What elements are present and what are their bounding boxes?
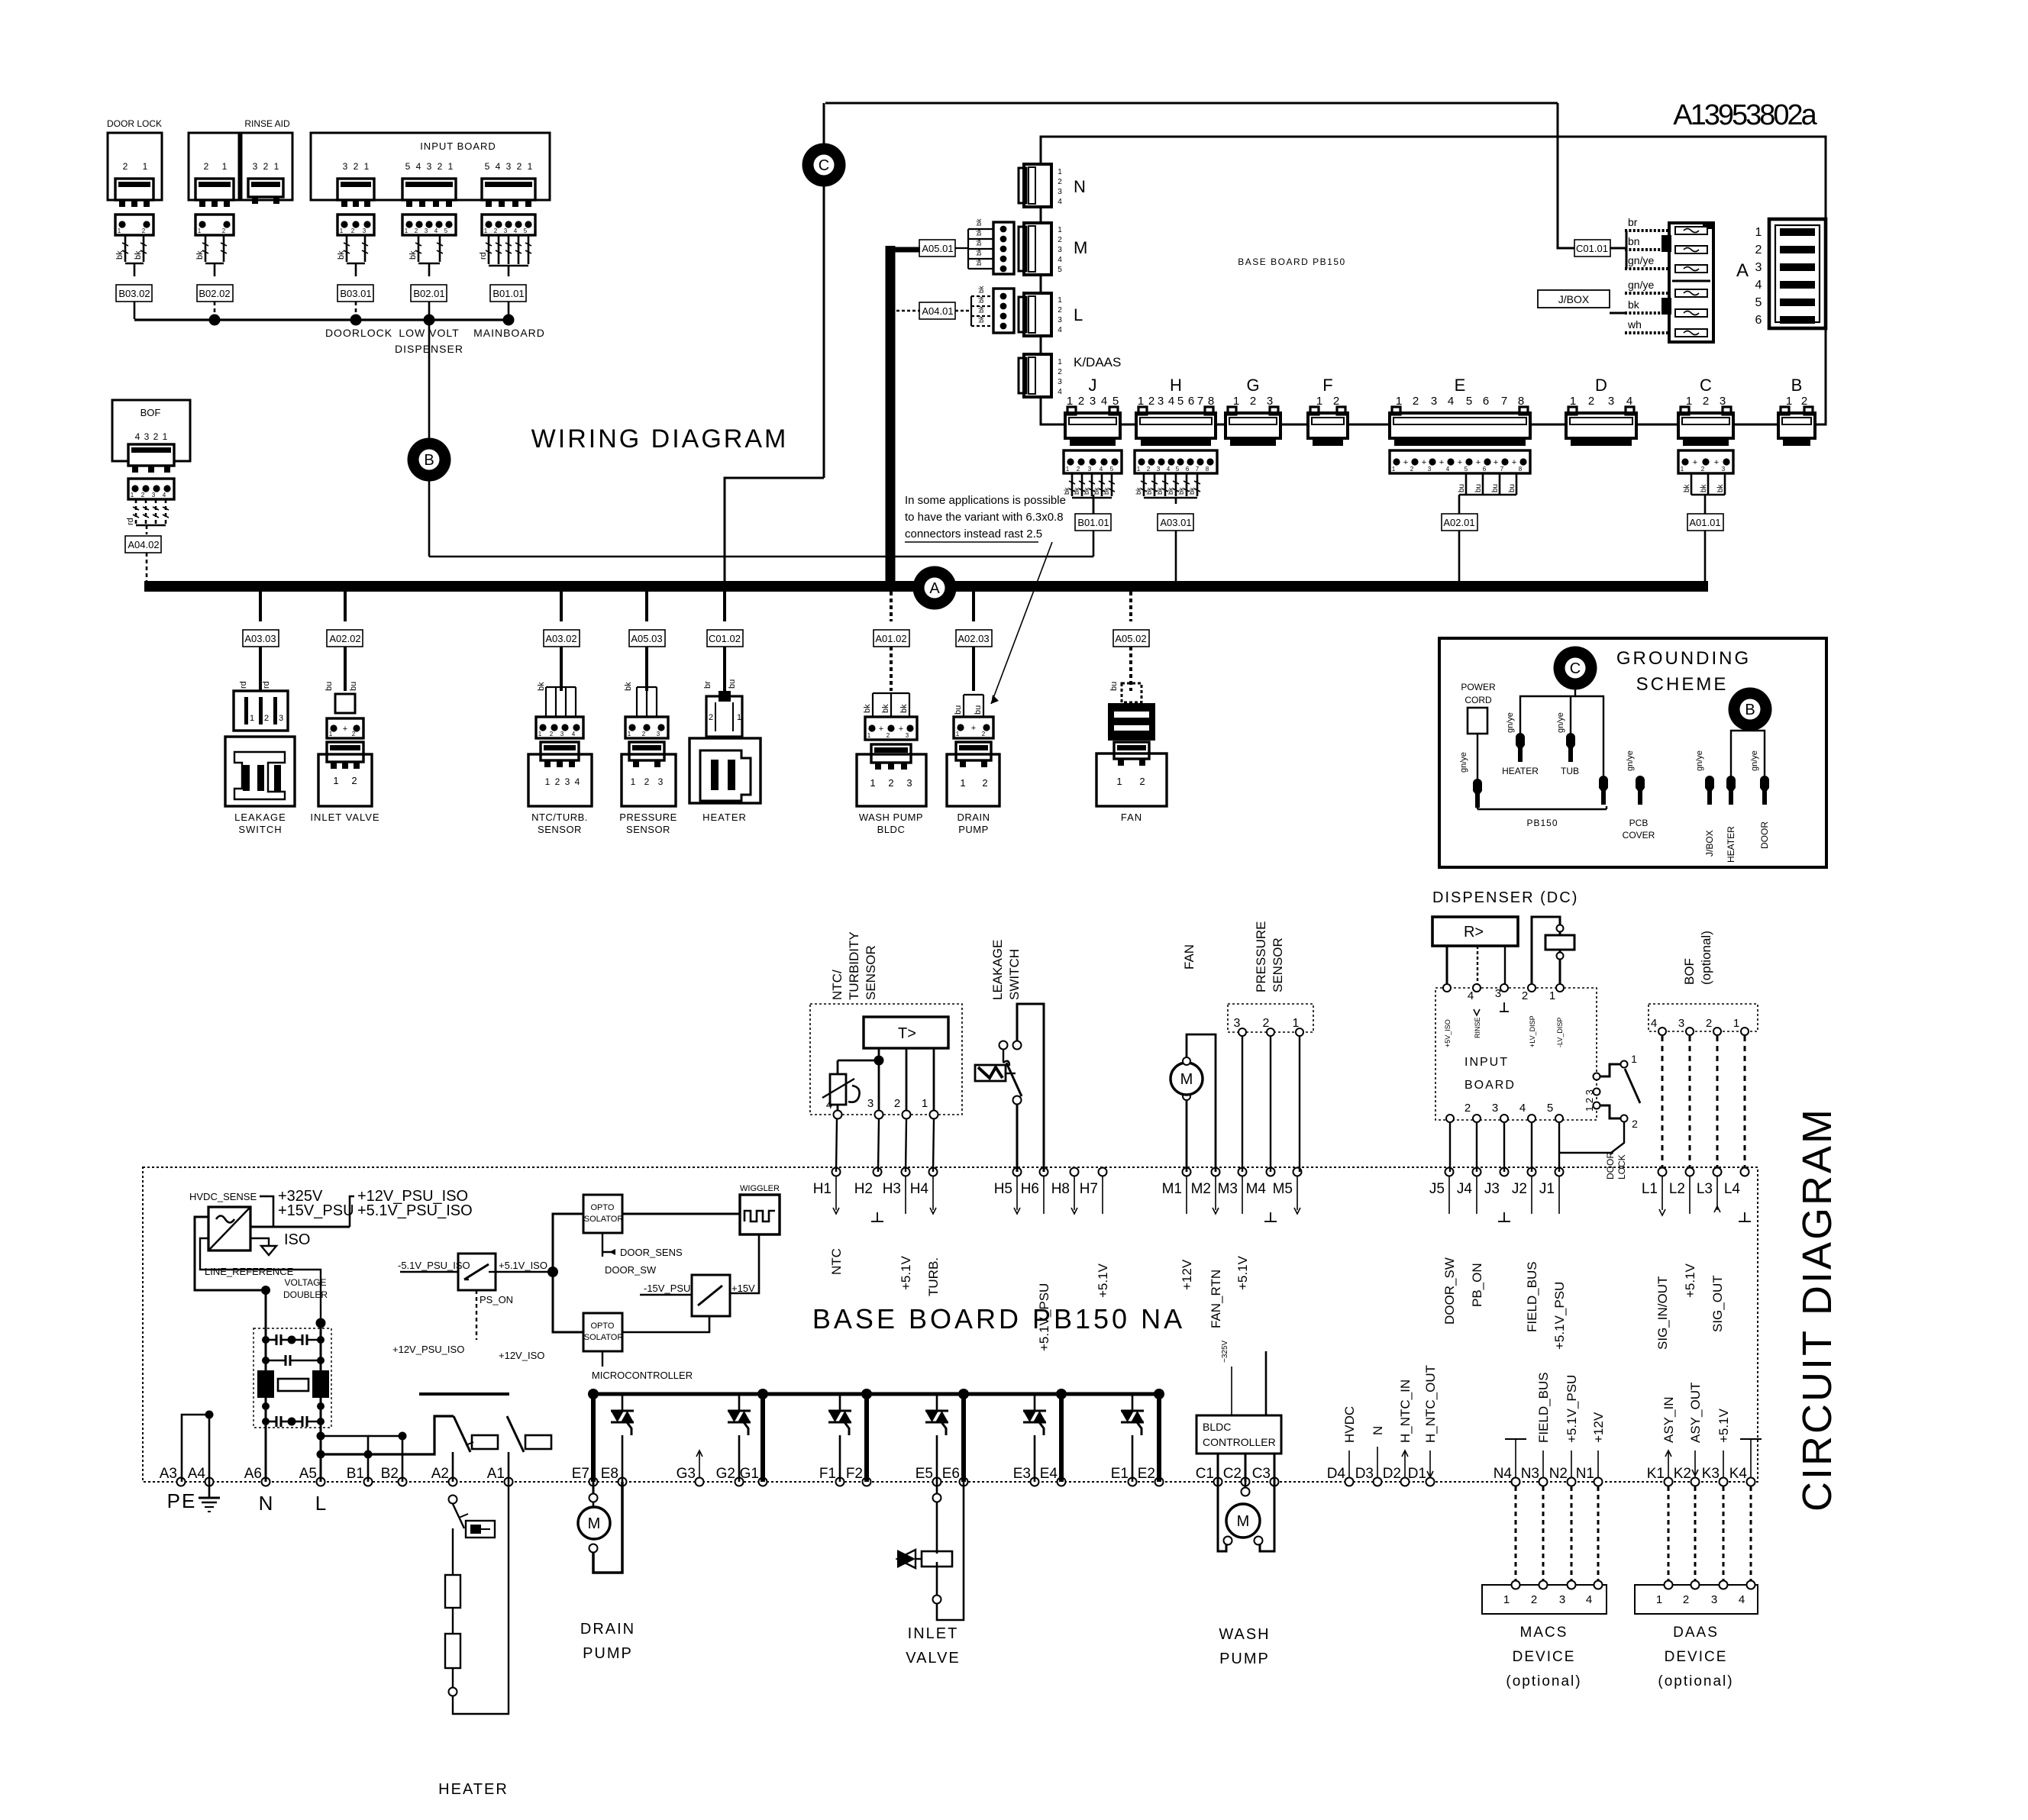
pin J4: [1473, 1168, 1481, 1176]
label box A02.01: [1442, 514, 1477, 531]
wire bracket br/bn/gnye: [1626, 231, 1628, 269]
pin J2: [1528, 1168, 1536, 1176]
svg-text:1: 1: [1631, 1053, 1637, 1065]
svg-text:3: 3: [1090, 395, 1096, 408]
dispenser wiring: [1446, 946, 1448, 988]
relay bar: [419, 1392, 509, 1396]
pin E1: [1129, 1478, 1137, 1486]
svg-text:1: 1: [538, 731, 542, 737]
wire heater feed (C01.02 path): [725, 478, 824, 582]
signal HVDC (D4): [1348, 1451, 1350, 1477]
label box A01.01: [1687, 514, 1723, 531]
svg-text:4: 4: [1167, 466, 1171, 473]
pressure sensor dotted box: [1228, 1004, 1313, 1032]
pin K2: [1691, 1478, 1700, 1486]
svg-text:F1: F1: [819, 1466, 836, 1482]
svg-text:D4: D4: [1327, 1466, 1346, 1482]
svg-text:2: 2: [1588, 395, 1594, 408]
svg-text:3: 3: [1058, 188, 1062, 196]
svg-text:1: 1: [1733, 1017, 1739, 1030]
svg-text:1: 1: [1058, 358, 1062, 366]
wire -15V switch to opto2: [622, 1316, 709, 1332]
wires to NTC housing: [546, 686, 576, 688]
pin A3: [177, 1478, 186, 1486]
pin A4: [205, 1478, 214, 1486]
svg-text:gn/ye: gn/ye: [1626, 750, 1635, 771]
wire PSU outputs: [250, 1226, 350, 1228]
svg-text:3: 3: [906, 777, 912, 789]
svg-text:bk: bk: [899, 704, 909, 713]
component box INPUT BOARD: [311, 133, 550, 200]
label box A03.03: [243, 630, 279, 647]
svg-text:PRESSURE: PRESSURE: [1254, 921, 1268, 992]
component box PRESSURE SENSOR: [622, 754, 676, 806]
svg-text:3: 3: [1157, 466, 1161, 473]
pin door: [1760, 780, 1769, 805]
relay A1: [507, 1416, 524, 1452]
connector leakage switch 3-slot plug: [234, 691, 288, 731]
svg-text:gn/ye: gn/ye: [1628, 279, 1654, 291]
svg-text:bk: bk: [1145, 487, 1153, 495]
svg-text:bk: bk: [337, 250, 346, 260]
svg-text:bk: bk: [977, 305, 985, 313]
node B: [408, 438, 451, 482]
svg-text:2: 2: [982, 777, 987, 789]
pin tub: [1566, 737, 1575, 762]
svg-text:B1: B1: [347, 1466, 364, 1482]
signal +5.1V_PSU (N2): [1571, 1451, 1572, 1477]
svg-text:1: 1: [1058, 168, 1062, 176]
pin F2: [863, 1478, 871, 1486]
svg-text:VOLTAGE: VOLTAGE: [285, 1277, 327, 1288]
svg-text:2: 2: [982, 731, 986, 737]
svg-text:L4: L4: [1724, 1181, 1741, 1197]
svg-text:2: 2: [1632, 1118, 1638, 1130]
svg-text:7: 7: [1197, 395, 1203, 408]
svg-text:+5.1V_ISO: +5.1V_ISO: [499, 1260, 547, 1271]
svg-text:NTC: NTC: [829, 1248, 844, 1275]
svg-text:BOARD: BOARD: [1464, 1079, 1516, 1092]
svg-text:B: B: [424, 452, 434, 469]
svg-text:NTC/: NTC/: [830, 970, 844, 1000]
svg-text:4: 4: [1058, 326, 1062, 334]
svg-text:4: 4: [1101, 395, 1107, 408]
svg-text:A05.03: A05.03: [631, 633, 662, 644]
svg-text:+5.1V: +5.1V: [1096, 1263, 1110, 1298]
ground K4: [1750, 1439, 1752, 1477]
svg-text:DEVICE: DEVICE: [1665, 1649, 1728, 1665]
svg-text:3: 3: [425, 227, 428, 234]
svg-text:bk: bk: [881, 704, 890, 713]
svg-text:D: D: [1595, 376, 1607, 395]
svg-text:+5.1V_PSU: +5.1V_PSU: [1037, 1283, 1051, 1351]
svg-text:2: 2: [351, 227, 355, 234]
svg-text:LINE_REFERENCE: LINE_REFERENCE: [205, 1266, 294, 1277]
pin G2: [735, 1478, 744, 1486]
svg-text:K2: K2: [1674, 1466, 1691, 1482]
svg-text:A: A: [1736, 260, 1749, 281]
svg-text:In some applications is possib: In some applications is possible: [905, 494, 1066, 507]
svg-text:5: 5: [1466, 395, 1472, 408]
svg-text:3: 3: [363, 227, 367, 234]
label +12V_PSU_ISO: [350, 1196, 354, 1227]
connector drain pump tab: [956, 742, 991, 760]
svg-text:5: 5: [1110, 466, 1114, 473]
svg-text:3: 3: [1559, 1593, 1565, 1606]
svg-text:1: 1: [960, 777, 965, 789]
triac E3: [1034, 1394, 1036, 1411]
pin D1: [1426, 1478, 1435, 1486]
svg-text:3: 3: [253, 161, 258, 172]
svg-text:A13953802a: A13953802a: [1673, 99, 1817, 131]
svg-text:6: 6: [1483, 466, 1487, 473]
wire thick-bar to A04.01 (dashed): [896, 310, 920, 311]
svg-text:wh: wh: [1627, 318, 1642, 331]
svg-text:5: 5: [1547, 1102, 1553, 1115]
svg-text:DOORLOCK: DOORLOCK: [325, 327, 392, 339]
connector fan plug (dashed): [1122, 683, 1142, 702]
svg-text:2: 2: [1464, 1102, 1471, 1115]
wire bus drop A02.03: [972, 592, 975, 621]
F2 leg: [864, 1394, 869, 1482]
svg-text:+: +: [1494, 458, 1498, 467]
svg-text:1: 1: [198, 227, 202, 234]
svg-text:bk: bk: [1628, 298, 1640, 311]
svg-text:br: br: [703, 681, 712, 689]
pin pcb cover right: [1636, 780, 1645, 805]
doubler black caps: [257, 1370, 274, 1398]
svg-text:+5.1V_PSU: +5.1V_PSU: [1565, 1375, 1579, 1443]
svg-text:1: 1: [118, 227, 121, 234]
connector housing at M (5-pin): [993, 222, 1014, 274]
wire bus drop A02.02: [344, 592, 347, 621]
svg-text:1: 1: [448, 161, 454, 172]
E2 leg: [1157, 1394, 1161, 1482]
svg-text:B03.02: B03.02: [118, 288, 150, 299]
svg-text:+15V_PSU: +15V_PSU: [278, 1202, 354, 1219]
svg-text:3: 3: [427, 161, 432, 172]
svg-text:bu: bu: [1491, 484, 1500, 492]
svg-text:3: 3: [906, 732, 909, 739]
label box B01.01 (top): [490, 285, 526, 302]
svg-text:3: 3: [1492, 1102, 1498, 1115]
svg-text:H1: H1: [813, 1181, 832, 1197]
signal H_NTC_IN (D2): [1404, 1451, 1406, 1477]
svg-text:2: 2: [1755, 244, 1762, 257]
wire bus drop A05.03: [645, 592, 648, 621]
wire bus drop A05.02: [1129, 592, 1132, 621]
wire A4 rail: [182, 1415, 209, 1482]
svg-text:1: 1: [545, 776, 551, 787]
label box A05.03: [629, 630, 665, 647]
svg-text:bk: bk: [1700, 483, 1708, 492]
wire low-volt bus: [134, 318, 509, 321]
wire dispenser junction down to node B: [428, 320, 431, 557]
svg-text:bu: bu: [954, 705, 963, 715]
label box B03.02: [116, 285, 152, 302]
svg-text:HEATER: HEATER: [1726, 826, 1736, 863]
svg-text:4: 4: [1739, 1593, 1745, 1606]
label box A04.01: [919, 302, 955, 319]
connector fan block: [1108, 703, 1155, 741]
connector INPUT BOARD 5-pin housing (dispenser): [402, 215, 456, 235]
svg-text:INPUT: INPUT: [1464, 1056, 1509, 1069]
signal PB_ON (J4): [1476, 1176, 1477, 1214]
svg-text:+12V_ISO: +12V_ISO: [499, 1350, 544, 1361]
connector INPUT BOARD 3-pin tab: [337, 179, 374, 200]
connector BOF 4-pin housing: [128, 479, 174, 499]
svg-text:C3: C3: [1252, 1466, 1271, 1482]
svg-text:bk: bk: [537, 682, 546, 691]
heater bottom loop: [453, 1482, 509, 1714]
wire door lock to B03.02 (bk,bk): [124, 235, 127, 262]
svg-text:1: 1: [131, 492, 134, 499]
svg-text:bu: bu: [1508, 484, 1516, 492]
svg-text:2: 2: [1522, 989, 1528, 1002]
svg-text:+5V_ISO: +5V_ISO: [1444, 1019, 1452, 1047]
svg-text:LEAKAGE: LEAKAGE: [234, 812, 286, 823]
svg-text:ISO: ISO: [284, 1231, 310, 1248]
svg-text:SENSOR: SENSOR: [538, 824, 582, 835]
dispenser coil rect: [1545, 935, 1574, 950]
svg-text:FAN: FAN: [1121, 812, 1142, 823]
component box DOOR LOCK: [108, 133, 162, 200]
pin M5: [1293, 1168, 1302, 1176]
node A: [913, 566, 957, 610]
svg-text:5: 5: [524, 227, 528, 234]
svg-text:1: 1: [329, 731, 333, 737]
pin K1: [1665, 1478, 1673, 1486]
ground J3: [1503, 1212, 1505, 1221]
svg-text:C01.02: C01.02: [709, 633, 741, 644]
DAAS device box: [1635, 1585, 1758, 1614]
svg-text:BLDC: BLDC: [877, 824, 906, 835]
pin H5: [1013, 1168, 1022, 1176]
svg-text:3: 3: [1431, 395, 1437, 408]
NTC sensor dotted box: [810, 1004, 962, 1115]
svg-text:1: 1: [1755, 226, 1762, 239]
junction N feed: [261, 1286, 270, 1295]
svg-text:E7: E7: [572, 1466, 589, 1482]
svg-text:3: 3: [560, 731, 564, 737]
svg-text:PCB: PCB: [1629, 818, 1649, 828]
svg-text:3: 3: [144, 431, 150, 442]
svg-text:+15V: +15V: [731, 1283, 755, 1294]
svg-text:bk: bk: [1156, 487, 1164, 495]
svg-text:PRESSURE: PRESSURE: [619, 812, 677, 823]
pin heater (grounding): [1516, 737, 1525, 762]
svg-text:C: C: [819, 157, 829, 174]
svg-text:7: 7: [1501, 395, 1507, 408]
svg-text:5: 5: [485, 161, 490, 172]
pin A5: [317, 1478, 325, 1486]
svg-text:2: 2: [1139, 776, 1145, 787]
label box A05.01: [919, 240, 955, 257]
svg-text:2: 2: [894, 1097, 900, 1110]
signal +5.1V (L2): [1689, 1176, 1691, 1214]
svg-text:T>: T>: [898, 1025, 916, 1042]
svg-text:H7: H7: [1080, 1181, 1098, 1197]
svg-text:A2: A2: [431, 1466, 449, 1482]
pin L3: [1713, 1168, 1722, 1176]
arrow to drain pump connector: [991, 542, 1052, 704]
pin B1: [364, 1478, 373, 1486]
connector wash pump tab: [871, 744, 911, 763]
svg-text:2: 2: [123, 161, 128, 172]
svg-text:1: 1: [1656, 1593, 1662, 1606]
svg-text:N: N: [1074, 177, 1086, 196]
component box LEAKAGE SWITCH: [225, 737, 295, 806]
heater fuse 1: [452, 1528, 454, 1575]
wire node C to C01.01: [825, 102, 1558, 105]
svg-text:+: +: [1714, 458, 1719, 467]
svg-text:+: +: [1693, 458, 1697, 467]
ground L4: [1744, 1212, 1745, 1221]
svg-text:M3: M3: [1218, 1181, 1238, 1197]
svg-text:bk: bk: [134, 250, 143, 260]
svg-text:1: 1: [405, 227, 409, 234]
svg-text:bu: bu: [1474, 484, 1483, 492]
svg-text:bk: bk: [1083, 487, 1090, 495]
drain pump motor: [593, 1482, 595, 1495]
svg-text:2: 2: [550, 731, 554, 737]
pin C3: [1271, 1478, 1279, 1486]
svg-text:2: 2: [1263, 1017, 1270, 1030]
svg-text:J5: J5: [1429, 1181, 1445, 1197]
pin G1: [759, 1478, 767, 1486]
svg-text:2: 2: [1410, 466, 1414, 473]
svg-text:G1: G1: [740, 1466, 759, 1482]
connector INPUT BOARD 5-pin housing (mainboard): [482, 215, 535, 235]
wire bus drop A01.02: [890, 592, 893, 621]
svg-text:4: 4: [163, 492, 166, 499]
fan motor circuit: [1186, 1100, 1188, 1172]
main bus A (thick): [144, 581, 1708, 592]
svg-text:5: 5: [1176, 466, 1180, 473]
svg-text:E6: E6: [942, 1466, 960, 1482]
svg-text:rd: rd: [262, 681, 271, 689]
svg-text:FIELD_BUS: FIELD_BUS: [1536, 1372, 1551, 1443]
svg-text:DEVICE: DEVICE: [1513, 1649, 1576, 1665]
svg-text:N4: N4: [1494, 1466, 1513, 1482]
svg-text:5: 5: [405, 161, 411, 172]
svg-text:1: 1: [1681, 466, 1684, 473]
svg-text:3: 3: [867, 1097, 874, 1110]
svg-text:PB150: PB150: [1526, 818, 1558, 828]
svg-text:FIELD_BUS: FIELD_BUS: [1525, 1261, 1539, 1332]
svg-text:3: 3: [1755, 261, 1762, 274]
leakage switch symbol: [1017, 1004, 1044, 1172]
connector housing below J: [1064, 450, 1122, 473]
switch -15V: [692, 1275, 730, 1316]
pin D4: [1345, 1478, 1354, 1486]
svg-text:bk: bk: [975, 228, 983, 236]
svg-text:TURB.: TURB.: [926, 1257, 941, 1296]
svg-text:2: 2: [415, 227, 418, 234]
svg-text:H8: H8: [1051, 1181, 1070, 1197]
component box HEATER: [689, 738, 760, 803]
label box B01.01 (bottom): [1075, 514, 1111, 531]
svg-text:bk: bk: [624, 682, 633, 691]
svg-text:INPUT BOARD: INPUT BOARD: [420, 140, 496, 152]
svg-text:bk: bk: [977, 286, 985, 293]
signal +12V (N1): [1597, 1451, 1599, 1477]
G1 leg: [760, 1394, 765, 1482]
svg-text:bk: bk: [975, 248, 983, 256]
svg-text:4: 4: [1468, 989, 1474, 1002]
svg-text:H3: H3: [883, 1181, 901, 1197]
svg-text:2: 2: [1706, 1017, 1712, 1030]
connector wash pump 3-pin housing: [865, 717, 917, 740]
base board PB150 NA outline (dotted): [143, 1167, 1758, 1482]
svg-text:A04.01: A04.01: [922, 305, 953, 317]
opto isolator 2: [553, 1272, 583, 1332]
svg-text:4: 4: [434, 227, 438, 234]
svg-text:K3: K3: [1702, 1466, 1720, 1482]
svg-text:HEATER: HEATER: [702, 812, 747, 823]
svg-text:J/BOX: J/BOX: [1558, 293, 1590, 305]
svg-text:bk: bk: [977, 315, 985, 323]
signal ASY_IN (K1): [1668, 1451, 1669, 1477]
svg-text:bk: bk: [863, 704, 872, 713]
svg-text:1: 1: [956, 731, 960, 737]
wire node B bracket: [1731, 731, 1750, 780]
svg-text:K1: K1: [1647, 1466, 1665, 1482]
signal TURB. (H4): [932, 1176, 934, 1210]
svg-text:TUB: TUB: [1561, 766, 1579, 776]
svg-text:3: 3: [1088, 466, 1092, 473]
base board PB150 outline: [1041, 137, 1826, 424]
wires dashed to L housing: [971, 295, 993, 297]
inlet valve coil: [936, 1482, 938, 1493]
svg-text:1: 1: [1137, 466, 1141, 473]
BLDC controller box: [1196, 1415, 1281, 1454]
svg-text:br: br: [1628, 216, 1638, 228]
connector RINSE AID 2-pin tab: [195, 179, 234, 200]
svg-text:DOUBLER: DOUBLER: [283, 1289, 328, 1300]
svg-text:bk: bk: [195, 250, 205, 260]
svg-text:PS_ON: PS_ON: [480, 1294, 513, 1305]
svg-text:2: 2: [222, 227, 226, 234]
svg-text:3: 3: [1058, 246, 1062, 254]
svg-text:DOOR_SW: DOOR_SW: [605, 1264, 657, 1276]
svg-text:MICROCONTROLLER: MICROCONTROLLER: [592, 1370, 693, 1381]
signal +5.1V_PSU (J1): [1558, 1176, 1560, 1214]
svg-text:bu: bu: [325, 682, 334, 691]
pin C1: [1214, 1478, 1222, 1486]
wire rinse aid to B02.02 (bk): [205, 235, 207, 262]
svg-text:3: 3: [1158, 395, 1164, 408]
svg-text:MACS: MACS: [1520, 1625, 1568, 1641]
svg-text:HVDC: HVDC: [1342, 1406, 1357, 1443]
svg-text:4: 4: [1586, 1593, 1592, 1606]
svg-text:B02.01: B02.01: [413, 288, 444, 299]
svg-text:1: 1: [250, 714, 254, 723]
pin heater (B): [1726, 780, 1736, 805]
svg-text:H2: H2: [854, 1181, 873, 1197]
svg-text:3: 3: [152, 492, 156, 499]
svg-text:2: 2: [263, 161, 269, 172]
connector drain pump 2-pin housing: [954, 717, 993, 738]
svg-text:3: 3: [1058, 378, 1062, 386]
svg-text:K4: K4: [1729, 1466, 1748, 1482]
connector DOOR LOCK 2-pin tab: [115, 179, 153, 200]
label box A02.03: [956, 630, 992, 647]
svg-text:A01.02: A01.02: [875, 633, 906, 644]
svg-text:+: +: [879, 724, 883, 734]
E4 leg: [1059, 1394, 1064, 1482]
svg-text:2: 2: [354, 161, 359, 172]
